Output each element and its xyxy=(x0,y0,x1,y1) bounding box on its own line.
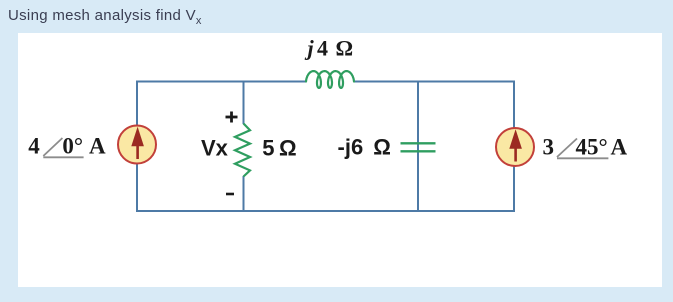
angle symbol for I2 xyxy=(557,139,608,159)
wire: left vertical branch (current source I1) xyxy=(136,81,138,213)
svg-text:5Ω: 5Ω xyxy=(262,135,296,160)
current source I1 arrow xyxy=(131,127,144,159)
svg-text:0°: 0° xyxy=(62,134,83,159)
polarity minus sign xyxy=(226,193,234,196)
svg-text:3: 3 xyxy=(543,135,555,160)
inductor L1 coil j4 ohm xyxy=(306,71,354,88)
wire: resistor branch top segment xyxy=(243,81,245,125)
current source I1 circle xyxy=(118,126,156,164)
title text xyxy=(8,7,202,27)
svg-text:4: 4 xyxy=(28,134,40,159)
svg-text:j4Ω: j4Ω xyxy=(305,36,354,61)
wire: capacitor branch vertical xyxy=(417,81,419,213)
wire: top-right horizontal (inductor to right node) xyxy=(354,81,514,83)
current source I2 circle xyxy=(496,128,534,166)
current source I2 label 3 angle 45 A xyxy=(543,135,628,160)
current source I2 arrow xyxy=(509,129,522,161)
capacitor C1 plates xyxy=(401,143,436,151)
svg-text:45°: 45° xyxy=(576,135,608,160)
angle symbol for I1 xyxy=(43,138,83,157)
current source I1 label 4 angle 0 A xyxy=(28,134,106,159)
svg-text:-j6Ω: -j6Ω xyxy=(338,135,391,160)
wire: right vertical branch (current source I2) xyxy=(513,81,515,213)
wire: bottom horizontal xyxy=(136,210,515,212)
wire: resistor branch bottom segment xyxy=(243,176,245,212)
svg-text:A: A xyxy=(89,134,106,159)
wire: top-left horizontal (left node to inductor) xyxy=(137,81,306,83)
svg-text:Vx: Vx xyxy=(201,135,229,160)
svg-text:A: A xyxy=(611,135,628,160)
resistor R1 zigzag 5 ohm xyxy=(235,124,250,177)
polarity plus sign xyxy=(226,112,238,123)
